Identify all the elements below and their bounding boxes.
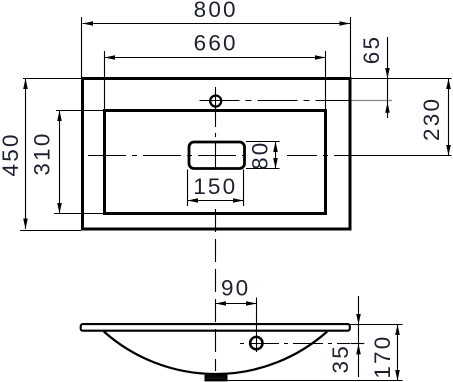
dimension 80: extension line top bbox=[246, 141, 280, 143]
dimension 800: dimension line bbox=[83, 23, 351, 25]
dimension 80: dimension line bbox=[275, 142, 277, 169]
centerline: drain axis (right of 80 label) bbox=[287, 155, 351, 157]
dimension 150: right arrowhead bbox=[233, 198, 244, 203]
dimension 35: dimension line bbox=[358, 296, 360, 377]
svg-text:150: 150 bbox=[193, 174, 237, 199]
dimension 800: right arrowhead bbox=[340, 21, 351, 26]
dimension 230: bottom arrowhead bbox=[446, 145, 451, 156]
dimension 150: extension line left bbox=[187, 170, 189, 207]
dimension 80: extension line bottom bbox=[246, 168, 280, 170]
dimension 800: extension line left bbox=[81, 17, 83, 78]
centerline: horizontal drain axis bbox=[88, 155, 246, 157]
top view: outer basin outline (800 x 450) bbox=[83, 79, 351, 230]
dimension 65: dimension line bbox=[387, 37, 389, 118]
centerline tick at 35 dim bbox=[351, 343, 365, 345]
dimension 170: extension line top (slab top) bbox=[351, 324, 403, 326]
dimension 660: extension line left bbox=[104, 51, 106, 110]
svg-text:80: 80 bbox=[248, 140, 273, 169]
dimension 80: top arrowhead bbox=[273, 142, 278, 153]
dimension 310: dimension line bbox=[59, 111, 61, 214]
extension line: drain axis to 230 dim bbox=[351, 155, 452, 157]
dimension 310: bottom arrowhead bbox=[57, 203, 62, 214]
svg-text:230: 230 bbox=[419, 97, 444, 141]
dimension 450: bottom arrowhead bbox=[23, 219, 28, 230]
top view: inner bowl outline (660 x 310) bbox=[105, 111, 326, 214]
svg-text:310: 310 bbox=[30, 131, 55, 175]
dimension 660: extension line right bbox=[325, 51, 327, 110]
dimension 90: dimension line bbox=[216, 303, 257, 305]
svg-text:170: 170 bbox=[370, 335, 395, 379]
dimension 170: dimension line bbox=[397, 325, 399, 381]
front view: drain outlet bbox=[206, 376, 227, 381]
dimension 170: top arrowhead bbox=[395, 325, 400, 336]
top view: faucet hole bbox=[210, 96, 221, 107]
svg-text:65: 65 bbox=[359, 35, 384, 64]
svg-text:660: 660 bbox=[194, 31, 238, 56]
dimension 450: extension line top bbox=[23, 78, 81, 80]
dimension 90: extension line right (through faucet hole) bbox=[256, 298, 258, 353]
dimension 150: dimension line bbox=[188, 200, 244, 202]
front view: countertop slab bbox=[81, 324, 350, 331]
extension line: top edge to 230 dim bbox=[352, 78, 452, 80]
dimension 65: upper arrowhead (points down to top edge) bbox=[385, 68, 390, 79]
dimension 800: extension line right bbox=[350, 17, 352, 78]
front view: faucet hole bbox=[250, 337, 262, 349]
centerline: faucet hole axis (front view) bbox=[237, 343, 350, 345]
dimension 310: top arrowhead bbox=[57, 111, 62, 122]
dimension 150: extension line right bbox=[243, 170, 245, 207]
dimension 35: lower arrowhead (points up to faucet axis) bbox=[356, 344, 361, 355]
dimension 660: dimension line bbox=[105, 57, 326, 59]
dimension 170: extension line bottom (drain bottom) bbox=[227, 380, 403, 382]
extension line: faucet axis to 65 dim (gray) bbox=[352, 100, 393, 102]
dimension 450: top arrowhead bbox=[23, 79, 28, 90]
centerline: vertical main axis (below 150 label) bbox=[215, 209, 217, 371]
svg-text:90: 90 bbox=[221, 276, 250, 301]
dimension 230: dimension line bbox=[448, 79, 450, 156]
dimension 150: left arrowhead bbox=[188, 198, 199, 203]
dimension 310: extension line bottom bbox=[54, 213, 103, 215]
dimension 660: right arrowhead bbox=[315, 55, 326, 60]
dimension 660: left arrowhead bbox=[105, 55, 116, 60]
dimension 80: bottom arrowhead bbox=[273, 158, 278, 169]
dimension 310: extension line top bbox=[56, 110, 103, 112]
dimension 90: right arrowhead bbox=[246, 301, 257, 306]
dimension 170: bottom arrowhead bbox=[395, 370, 400, 381]
front view: basin bowl arc bbox=[104, 332, 327, 375]
dimension 90: left arrowhead bbox=[216, 301, 227, 306]
dimension 450: extension line bottom bbox=[20, 230, 81, 232]
dimension 65: lower arrowhead (points up to faucet axis) bbox=[385, 102, 390, 113]
svg-text:35: 35 bbox=[328, 344, 353, 373]
centerline: faucet hole horizontal axis bbox=[200, 100, 352, 102]
top view: drain cutout rectangle (150 x 80) bbox=[189, 142, 245, 169]
dimension 35: upper arrowhead (points down to slab top) bbox=[356, 314, 361, 325]
dimension 800: left arrowhead bbox=[83, 21, 94, 26]
svg-text:450: 450 bbox=[0, 132, 23, 176]
centerline: vertical main axis bbox=[215, 87, 217, 170]
svg-text:800: 800 bbox=[194, 0, 238, 22]
dimension 230: top arrowhead bbox=[446, 79, 451, 90]
dimension 450: dimension line bbox=[25, 79, 27, 230]
